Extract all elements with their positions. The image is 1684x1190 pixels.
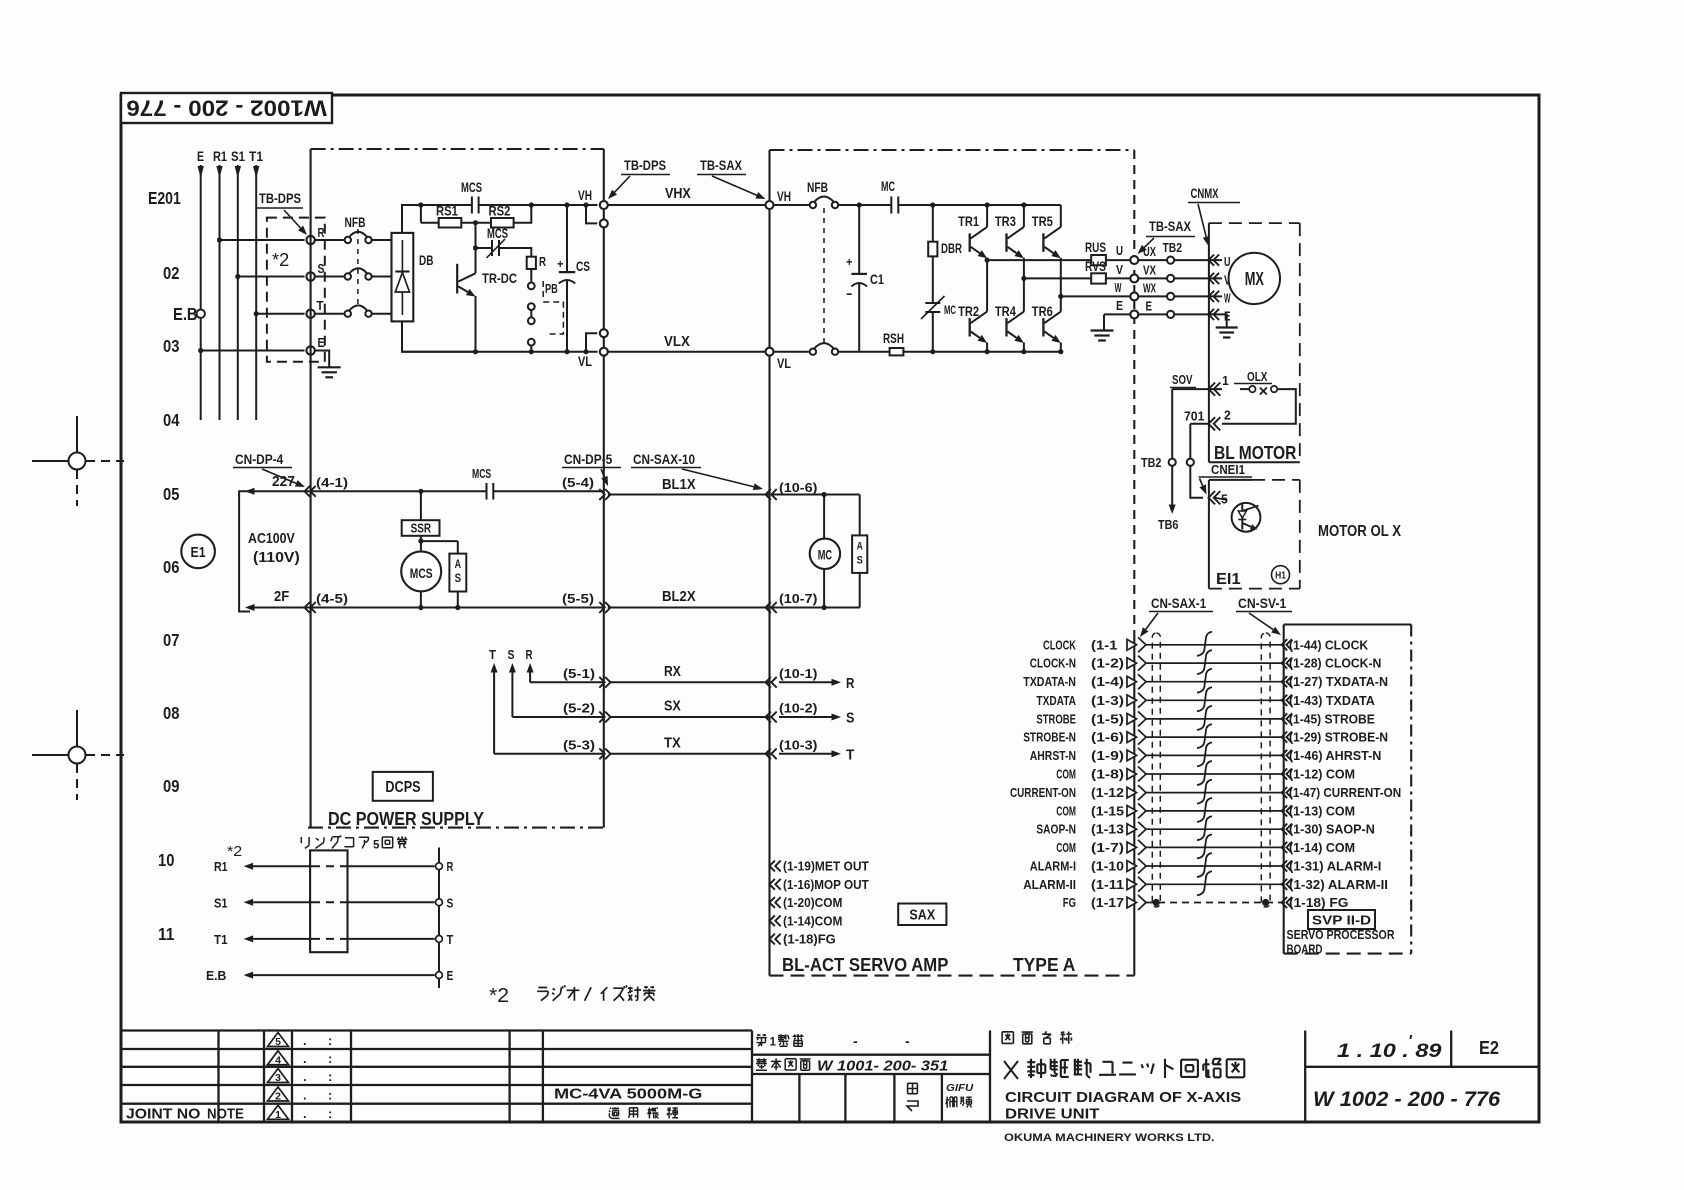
basic drawing row (Japanese): [756, 1058, 767, 1070]
note ring core 5 turns (Japanese): [301, 837, 309, 848]
svg-text::: :: [328, 1033, 332, 1048]
svg-text:SX: SX: [664, 698, 681, 715]
svg-text:(10-7): (10-7): [779, 592, 817, 606]
breaker NFB linkage dashed: [357, 229, 359, 308]
connector CN-DP-4 pin 4-1 chevrons: [305, 486, 310, 497]
wire TXDATA-N to SVP board: [1146, 681, 1284, 683]
wire ALARM-II to SVP board: [1146, 883, 1284, 885]
svg-text:R1: R1: [214, 859, 228, 874]
svg-text:U: U: [1224, 255, 1231, 269]
connector CN-SV-1 pin chevrons for (1-44) CLOCK: [1282, 639, 1288, 650]
wire BL2X: [608, 607, 770, 609]
svg-text:3: 3: [275, 1072, 281, 1084]
svg-text:2: 2: [275, 1091, 281, 1103]
motor MX circle: [1229, 253, 1280, 304]
svg-text:5: 5: [373, 838, 380, 852]
crossing slash on wire STROBE-N: [1197, 724, 1212, 748]
wire VL to NFB: [774, 351, 810, 353]
wire VH to NFB: [774, 204, 810, 206]
svg-text::: :: [328, 1069, 332, 1084]
connector CN-SAX-1 pin (1-13 (triangle): [1127, 824, 1137, 835]
connector CN-SV-1 pin chevrons for (1-18) FG: [1282, 897, 1288, 908]
svg-text:W: W: [1224, 292, 1231, 306]
svg-text:TB2: TB2: [1163, 241, 1183, 255]
svg-text:09: 09: [163, 776, 180, 796]
svg-text:R: R: [846, 675, 855, 692]
crossing slash on wire AHRST-N: [1197, 742, 1212, 766]
svg-text:E: E: [1146, 300, 1153, 314]
svg-text:05: 05: [163, 484, 180, 504]
capacitor MC contact on top rail: [890, 197, 892, 214]
terminal VH on TB-DPS: [600, 201, 608, 209]
svg-text:E201: E201: [148, 188, 181, 208]
connector CN-SAX-10 pin (10-3) chevrons: [766, 748, 771, 759]
svg-text:COM: COM: [1056, 804, 1076, 818]
svg-text:TB2: TB2: [1141, 456, 1161, 470]
transistor TR5: [1060, 205, 1062, 227]
wire MCS contact to resistor R: [499, 248, 531, 257]
wire TB-SAX to TB2 at y=278.4: [1138, 277, 1167, 279]
wire supply line S1 vertical: [237, 165, 239, 420]
svg-text:H1: H1: [1275, 571, 1286, 582]
connector CN-SAX-10 pin 10-7 chevrons: [766, 602, 771, 613]
svg-text:1: 1: [770, 1035, 777, 1049]
svg-text:T1: T1: [214, 932, 228, 947]
svg-text:(10-3): (10-3): [779, 738, 817, 752]
svg-text:VX: VX: [1143, 264, 1157, 278]
svg-text:CN-SAX-1: CN-SAX-1: [1151, 596, 1207, 611]
SAX label box: [898, 904, 946, 926]
terminal TB-DPS E: [306, 346, 314, 354]
wire T branch with up arrow: [493, 673, 495, 754]
wire V phase output: [1024, 277, 1091, 279]
amp output pin (1-18)FG: [770, 934, 775, 945]
contact terminals under R: [528, 283, 535, 290]
wire COM to SVP board: [1146, 810, 1284, 812]
amp output pin (1-20)COM: [770, 897, 775, 908]
svg-text:(5-4): (5-4): [562, 476, 594, 490]
svg-text:MOTOR OL X: MOTOR OL X: [1318, 523, 1402, 540]
wire TB2 to motor connector at y=296.4: [1174, 295, 1222, 297]
wire BL1X: [608, 494, 770, 496]
label drawing name (Japanese): [1002, 1032, 1013, 1044]
EI1 thermal unit box (mixed dashed): [1208, 480, 1210, 589]
crossing slash on wire SAOP-N: [1197, 816, 1212, 840]
ground symbol in motor box: [1216, 326, 1238, 328]
svg-text:VL: VL: [777, 355, 791, 371]
svg-text:E: E: [1116, 298, 1123, 313]
connector CN-SAX-1 pin (1-10 (triangle): [1127, 861, 1137, 872]
svg-text:ALARM-II: ALARM-II: [1023, 878, 1076, 892]
wire TB2 to motor connector at y=260.1: [1174, 259, 1222, 261]
capacitor MCS (top): [471, 197, 473, 214]
svg-text:RSH: RSH: [883, 330, 904, 346]
svg-text:(1-14) COM: (1-14) COM: [1289, 841, 1355, 855]
registration mark lower-left: [76, 710, 78, 746]
connector pin chevrons CNMX at y=314.4: [1209, 309, 1215, 320]
DCPS block right boundary (solid): [603, 149, 605, 828]
svg-text:(1-18) FG: (1-18) FG: [1289, 896, 1348, 910]
wire BL1X into amp: [772, 494, 860, 496]
svg-text:(1-45) STROBE: (1-45) STROBE: [1289, 712, 1375, 726]
wire top rail to MCS capacitor: [421, 204, 472, 206]
svg-text:TB6: TB6: [1158, 518, 1178, 532]
wire amp bottom rail: [903, 351, 1060, 353]
wire MCS to VH terminal: [479, 204, 598, 206]
DCPS label box: [373, 772, 433, 801]
svg-text:TR5: TR5: [1032, 213, 1053, 229]
svg-text:E: E: [447, 968, 454, 983]
resistor DBR: [932, 205, 934, 242]
connector CN-SAX-1 pin (1-4) (triangle): [1127, 676, 1137, 687]
svg-text:AC100V: AC100V: [248, 531, 295, 547]
node between RS1 and RS2: [461, 222, 491, 224]
capacitor CS (polarized): [566, 205, 568, 272]
svg-text:R: R: [526, 647, 533, 662]
terminal VH on TB-SAX: [766, 201, 774, 209]
wire VHX: [608, 204, 766, 206]
svg-text:JOINT NO: JOINT NO: [126, 1106, 201, 1123]
wire motor E pin to ground: [1222, 314, 1227, 327]
registration mark upper-left: [76, 416, 78, 452]
crossing slash on wire STROBE: [1197, 706, 1212, 730]
svg-text:(1-17: (1-17: [1091, 896, 1124, 910]
svg-text:TXDATA-N: TXDATA-N: [1023, 675, 1076, 689]
wire amp top rail to TR5 riser: [898, 204, 1061, 206]
label SVP II-D boxed: [1308, 910, 1375, 929]
crossing slash on wire COM: [1197, 834, 1212, 858]
title block horizontal rules (left): [121, 1029, 752, 1031]
wire 227 with left arrow: [255, 490, 311, 492]
wire TXDATA to SVP board: [1146, 699, 1284, 701]
wire TB2 to motor connector at y=314.4: [1174, 313, 1222, 315]
wire NFB S row: [315, 276, 345, 278]
svg-text:.: .: [303, 1069, 307, 1084]
svg-text:MX: MX: [1245, 269, 1264, 289]
crossing slash on wire ALARM-I: [1197, 853, 1212, 877]
wire NFB T row: [315, 313, 345, 315]
svg-text:10: 10: [158, 850, 175, 870]
terminal TB-DPS T: [306, 310, 314, 318]
breaker NFB amp linkage dashed: [823, 208, 825, 346]
connector CN-SAX-1 pin (1-7) (triangle): [1127, 842, 1137, 853]
svg-text:(5-5): (5-5): [562, 592, 594, 606]
wire VLX: [608, 351, 766, 353]
terminal S on amp side: [436, 899, 443, 906]
svg-text:.: .: [303, 1088, 307, 1103]
svg-text:MCS: MCS: [487, 225, 508, 241]
circle E1: [181, 535, 215, 569]
transistor TR2: [986, 260, 988, 312]
terminal TB2 (SOV): [1169, 459, 1176, 466]
wire RS2 to top rail: [514, 205, 532, 223]
DCPS block top boundary (dash-dot): [311, 148, 604, 150]
SAX servo amp block bottom boundary dashed: [770, 975, 1135, 977]
svg-text::: :: [328, 1088, 332, 1103]
svg-text:W: W: [1115, 280, 1122, 295]
svg-text:E.B: E.B: [206, 968, 226, 983]
terminal VL on TB-DPS: [600, 348, 608, 356]
svg-text:CNEI1: CNEI1: [1211, 463, 1245, 477]
svg-text:T: T: [846, 746, 854, 763]
svg-text:W1002 - 200 - 776: W1002 - 200 - 776: [126, 96, 327, 121]
svg-text:227: 227: [272, 474, 295, 490]
svg-text:OKUMA MACHINERY WORKS LTD.: OKUMA MACHINERY WORKS LTD.: [1004, 1132, 1215, 1144]
svg-text:TX: TX: [664, 734, 681, 751]
svg-text:DBR: DBR: [941, 240, 962, 256]
connector CN-SV-1 pin chevrons for (1-12) COM: [1282, 768, 1288, 779]
wire STROBE to SVP board: [1146, 718, 1284, 720]
breaker NFB amp contacts VL row: [810, 349, 816, 355]
wire DPS bottom rail: [402, 351, 598, 353]
svg-text:+: +: [557, 257, 564, 271]
connector CN-SAX-1 pin (1-17 (triangle): [1127, 897, 1137, 908]
connector CN-SV-1 pin chevrons for (1-46) AHRST-N: [1282, 750, 1288, 761]
breaker NFB contact pair at y=276.5: [345, 273, 351, 279]
pin 5 chevrons and label: [1209, 491, 1216, 504]
right title area verticals: [989, 1031, 991, 1122]
svg-text:T: T: [317, 298, 324, 313]
svg-text:*2: *2: [489, 985, 509, 1007]
svg-text:(1-14)COM: (1-14)COM: [783, 914, 842, 928]
svg-text:SOV: SOV: [1172, 373, 1193, 387]
svg-text:(1-29) STROBE-N: (1-29) STROBE-N: [1289, 731, 1388, 745]
svg-text:(1-31) ALARM-I: (1-31) ALARM-I: [1289, 860, 1381, 874]
svg-text:1: 1: [1222, 374, 1229, 388]
svg-text:CLOCK: CLOCK: [1043, 638, 1076, 652]
SAX servo amp block right boundary upper dashed: [1133, 150, 1135, 632]
connector CN-SAX-1 pin (1-5) (triangle): [1127, 714, 1137, 725]
svg-text:BL1X: BL1X: [662, 476, 696, 493]
transistor TR3: [1023, 205, 1025, 227]
svg-text:VH: VH: [578, 187, 592, 203]
wire supply line R1 vertical: [219, 165, 221, 420]
svg-text:2: 2: [1224, 409, 1231, 423]
svg-text:VHX: VHX: [665, 185, 691, 202]
wire CLOCK to SVP board: [1146, 644, 1284, 646]
svg-text:RVS: RVS: [1085, 258, 1106, 274]
svg-text:S1: S1: [231, 149, 245, 164]
svg-text:S: S: [455, 573, 462, 585]
svg-text:SAOP-N: SAOP-N: [1036, 823, 1076, 837]
resistor R (vertical): [527, 257, 536, 269]
svg-text:E: E: [318, 335, 325, 350]
svg-text:TR3: TR3: [995, 213, 1016, 229]
resistor RS1: [420, 205, 422, 223]
wire terminal to CNEI1 pin 5: [1190, 466, 1203, 498]
svg-text:CN-SAX-10: CN-SAX-10: [633, 452, 695, 467]
connector CN-SV-1 pin chevrons for (1-47) CURRENT-ON: [1282, 787, 1288, 798]
wire BL2X into amp: [772, 607, 860, 609]
crossing slash on wire TXDATA-N: [1197, 669, 1212, 693]
svg-text:S1: S1: [214, 895, 228, 910]
document number box (rotated) top-left: [121, 93, 332, 123]
svg-text:GIFU: GIFU: [946, 1082, 974, 1094]
svg-text:S: S: [447, 895, 454, 910]
svg-text:RUS: RUS: [1085, 239, 1106, 255]
svg-text:TB-DPS: TB-DPS: [259, 190, 301, 206]
ground symbol amp output: [1091, 329, 1114, 331]
svg-text:BL2X: BL2X: [662, 588, 696, 605]
rectifier DB box: [392, 233, 414, 322]
wire COM to SVP board: [1146, 773, 1284, 775]
wire R to PB contact chain: [530, 269, 532, 282]
svg-text:OLX: OLX: [1247, 370, 1268, 384]
svg-text:*2: *2: [272, 250, 289, 270]
svg-text:TB-SAX: TB-SAX: [700, 157, 743, 173]
terminal VH auxiliary below: [583, 202, 588, 207]
resistor AS in amp: [859, 495, 861, 536]
svg-text:A: A: [455, 559, 461, 571]
svg-text:03: 03: [163, 336, 180, 356]
label applicable machine (Japanese): [609, 1107, 620, 1118]
wire R phase to TB-DPS R: [217, 237, 222, 242]
svg-text:-: -: [853, 1033, 858, 1049]
svg-text:MC-4VA 5000M-G: MC-4VA 5000M-G: [554, 1087, 702, 1103]
svg-text:SAX: SAX: [909, 907, 935, 924]
svg-text:5: 5: [275, 1036, 281, 1048]
label H1 circled: [1272, 566, 1290, 584]
svg-text:CIRCUIT DIAGRAM OF X-AXIS: CIRCUIT DIAGRAM OF X-AXIS: [1005, 1090, 1241, 1106]
svg-text:MCS: MCS: [472, 467, 491, 481]
svg-text:CN-DP-5: CN-DP-5: [564, 452, 613, 467]
connector CN-SAX-1 pin (1-9) (triangle): [1127, 750, 1137, 761]
crossing slash on wire CLOCK-N: [1197, 650, 1212, 674]
svg-text:(1-11: (1-11: [1091, 878, 1124, 892]
svg-text:WX: WX: [1143, 282, 1156, 296]
connector CN-SAX-1 pin (1-3) (triangle): [1127, 695, 1137, 706]
wire TB-SAX to TB2 at y=296.4: [1138, 295, 1167, 297]
svg-text:VL: VL: [578, 353, 592, 369]
wire STROBE-N to SVP board: [1146, 736, 1284, 738]
wire TB2 to motor connector at y=278.4: [1174, 277, 1222, 279]
svg-text:(1-28) CLOCK-N: (1-28) CLOCK-N: [1289, 657, 1381, 671]
svg-text:R: R: [539, 254, 546, 269]
svg-text:S: S: [318, 261, 325, 276]
connector CN-SAX-1 pin (1-1 (triangle): [1127, 639, 1137, 650]
svg-text:(1-44) CLOCK: (1-44) CLOCK: [1289, 638, 1368, 652]
svg-text:(1-16)MOP OUT: (1-16)MOP OUT: [783, 878, 869, 892]
connector pin chevrons CNMX at y=260.1: [1209, 255, 1215, 266]
connector CN-SAX-1 pin (1-12 (triangle): [1127, 787, 1137, 798]
terminal TB2 at y=314.4: [1167, 311, 1174, 318]
wire AHRST-N to SVP board: [1146, 754, 1284, 756]
breaker NFB contact pair at y=240: [345, 237, 351, 243]
svg-text:(5-2): (5-2): [563, 702, 595, 716]
terminal VL auxiliary above: [583, 349, 588, 354]
svg-text:02: 02: [163, 263, 180, 283]
coil MCS circle: [420, 536, 422, 552]
svg-text:(4-5): (4-5): [316, 592, 348, 606]
svg-text:A: A: [857, 541, 863, 553]
wire 227 to MCS capacitor: [311, 490, 487, 492]
svg-text:1: 1: [275, 1109, 281, 1121]
svg-text:VLX: VLX: [664, 333, 690, 350]
svg-text:(1-1: (1-1: [1091, 638, 1117, 652]
svg-text:TR2: TR2: [958, 303, 979, 319]
BL MOTOR box (mixed dashed): [1208, 223, 1210, 462]
svg-text:(1-19)MET OUT: (1-19)MET OUT: [783, 860, 869, 874]
svg-text:.: .: [303, 1051, 307, 1066]
connector CN-SAX-10 pin (10-1) chevrons: [766, 677, 771, 688]
connector CN-SAX-1 pin (1-2) (triangle): [1127, 658, 1137, 669]
svg-text:NOTE: NOTE: [207, 1106, 244, 1123]
wire E to TB-DPS E: [198, 348, 203, 353]
wire pin2 down via terminal: [1190, 423, 1209, 425]
svg-text:CNMX: CNMX: [1191, 186, 1219, 201]
svg-text:(4-1): (4-1): [316, 476, 348, 490]
resistor RVS: [1091, 273, 1106, 283]
contactor coil MC in amp: [823, 495, 825, 539]
rectifier DB diode symbol: [401, 240, 403, 271]
connector pin chevrons CNMX at y=278.4: [1209, 273, 1215, 284]
transistor TR4: [1023, 278, 1025, 311]
wire RX out arrow to R: [779, 681, 832, 683]
svg-text:CURRENT-ON: CURRENT-ON: [1010, 786, 1076, 800]
svg-text:FG: FG: [1063, 896, 1076, 910]
svg-text:EI1: EI1: [1216, 571, 1241, 588]
terminal VL on TB-SAX: [766, 348, 774, 356]
svg-text:(1-30) SAOP-N: (1-30) SAOP-N: [1289, 823, 1375, 837]
svg-text:W 1002 - 200 - 776: W 1002 - 200 - 776: [1313, 1088, 1501, 1111]
connector CN-SV-1 pin chevrons for (1-14) COM: [1282, 842, 1288, 853]
wire CLOCK-N to SVP board: [1146, 662, 1284, 664]
approval stamp cells: [798, 1074, 800, 1122]
connector CN-SV-1 pin chevrons for (1-30) SAOP-N: [1282, 824, 1288, 835]
connector CN-SAX-10 pin (10-2) chevrons: [766, 712, 771, 723]
node DPS top rail junction: [418, 202, 423, 207]
breaker NFB amp contacts VH row: [810, 202, 816, 208]
terminal TB2 at y=296.4: [1167, 293, 1174, 300]
terminal TB-SAX W: [1130, 292, 1138, 300]
svg-text:(1-46) AHRST-N: (1-46) AHRST-N: [1289, 749, 1381, 763]
connector CN-SV-1 pin chevrons for (1-28) CLOCK-N: [1282, 658, 1288, 669]
svg-text:MCS: MCS: [461, 179, 482, 195]
svg-text:R1: R1: [213, 149, 227, 164]
svg-text:DC POWER SUPPLY: DC POWER SUPPLY: [328, 809, 484, 829]
svg-text:S: S: [846, 710, 854, 727]
svg-text:TXDATA: TXDATA: [1036, 694, 1076, 708]
crossing slash on wire TXDATA: [1197, 687, 1212, 711]
svg-text:TR-DC: TR-DC: [482, 270, 517, 286]
wire RX: [611, 681, 771, 683]
svg-text:08: 08: [163, 703, 180, 723]
svg-text:CN-SV-1: CN-SV-1: [1238, 596, 1287, 611]
relay SSR box: [420, 491, 422, 520]
svg-text:S: S: [857, 555, 863, 567]
svg-text:BL MOTOR: BL MOTOR: [1214, 443, 1296, 463]
svg-text:DCPS: DCPS: [385, 779, 420, 796]
terminal TB-DPS R: [306, 236, 314, 244]
svg-text:(1-4): (1-4): [1091, 675, 1124, 689]
svg-text:4: 4: [275, 1054, 281, 1066]
svg-text::: :: [328, 1106, 332, 1121]
connector CN-SAX-1 pin (1-11 (triangle): [1127, 879, 1137, 890]
terminal TB-SAX V: [1130, 274, 1138, 282]
svg-text:(1-8): (1-8): [1091, 768, 1124, 782]
svg-text:(1-20)COM: (1-20)COM: [783, 896, 842, 910]
svg-text:W 1001- 200- 351: W 1001- 200- 351: [817, 1058, 948, 1075]
svg-text:T1: T1: [249, 149, 263, 164]
wire TB-SAX to TB2 at y=314.4: [1138, 313, 1167, 315]
capacitor MCS on 227 line: [486, 483, 488, 500]
wire E output with ground: [1104, 313, 1130, 315]
DCPS block bottom boundary (dash-dot): [308, 827, 604, 829]
pin 2 chevrons and label: [1209, 417, 1216, 430]
svg-text:AHRST-N: AHRST-N: [1030, 749, 1076, 763]
svg-text:(1-12: (1-12: [1091, 786, 1124, 800]
wire CURRENT-ON to SVP board: [1146, 792, 1284, 794]
